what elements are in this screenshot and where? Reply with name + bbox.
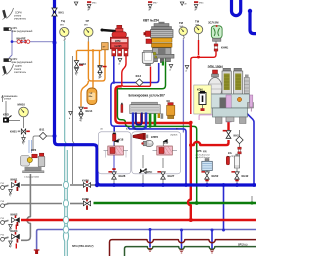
- svg-text:ЗСЛ-2М: ЗСЛ-2М: [208, 21, 219, 25]
- svg-text:(№367): (№367): [171, 133, 178, 136]
- svg-text:кран редукционный: кран редукционный: [12, 30, 34, 33]
- svg-text:стекло: стекло: [14, 69, 22, 71]
- svg-text:КПС: КПС: [147, 170, 153, 174]
- svg-text:А3: А3: [134, 127, 136, 130]
- svg-text:№395: №395: [114, 44, 122, 48]
- svg-text:PV3: PV3: [1, 218, 4, 220]
- svg-text:PV4: PV4: [1, 235, 4, 237]
- svg-text:КЭР1: КЭР1: [12, 28, 19, 30]
- svg-text:А2: А2: [126, 127, 128, 130]
- svg-text:стекол: стекол: [4, 99, 12, 101]
- svg-text:КН20: КН20: [82, 179, 89, 183]
- svg-text:КР3: КР3: [31, 148, 37, 152]
- svg-text:КН4ЛЕ: КН4ЛЕ: [17, 37, 26, 41]
- svg-text:КН2: КН2: [234, 134, 240, 138]
- svg-text:МН1: МН1: [180, 26, 184, 28]
- svg-text:КА: КА: [228, 151, 232, 155]
- svg-text:МН2: МН2: [84, 25, 88, 27]
- svg-text:PV5: PV5: [1, 183, 4, 185]
- svg-text:ТМ: ТМ: [195, 20, 200, 24]
- svg-text:PV8: PV8: [1, 201, 4, 203]
- svg-text:СОРН: СОРН: [15, 13, 22, 15]
- svg-text:КН14: КН14: [86, 109, 93, 113]
- svg-text:КПО: КПО: [3, 113, 10, 117]
- svg-text:У17: У17: [164, 141, 169, 145]
- svg-text:Блокировка усл.№367: Блокировка усл.№367: [129, 94, 166, 98]
- svg-text:SP11 (ПВ1-110/0,7): SP11 (ПВ1-110/0,7): [72, 245, 94, 248]
- svg-text:СОРН: СОРН: [15, 66, 22, 68]
- svg-text:КН42: КН42: [242, 174, 249, 178]
- svg-text:А1: А1: [101, 127, 103, 130]
- svg-text:У18: У18: [119, 138, 124, 142]
- svg-text:КН51: КН51: [10, 130, 17, 134]
- svg-text:ГМ: ГМ: [179, 21, 184, 25]
- svg-text:КН28: КН28: [119, 174, 126, 178]
- svg-text:К смазыванию: К смазыванию: [2, 96, 18, 98]
- svg-text:КН17: КН17: [153, 3, 157, 5]
- svg-text:А6: А6: [176, 127, 178, 130]
- svg-text:МН10: МН10: [18, 103, 26, 107]
- svg-text:очиститель: очиститель: [14, 19, 27, 21]
- svg-text:SP12 (с): SP12 (с): [238, 244, 248, 247]
- svg-text:кран редукционный: кран редукционный: [12, 61, 34, 64]
- svg-text:КЛР2: КЛР2: [151, 135, 159, 139]
- svg-text:КНК2: КНК2: [11, 213, 18, 217]
- svg-text:КН55: КН55: [82, 197, 89, 201]
- svg-text:КН16: КН16: [199, 3, 203, 5]
- svg-text:исп.7,5-8,5кгс/см²: исп.7,5-8,5кгс/см²: [196, 153, 211, 156]
- svg-text:(РД): (РД): [203, 151, 207, 153]
- svg-text:Ф11: Ф11: [39, 128, 45, 132]
- svg-text:КН4Б: КН4Б: [221, 46, 228, 50]
- svg-text:упр.5,0-5,2кгс/см²: упр.5,0-5,2кгс/см²: [196, 156, 211, 159]
- svg-text:КНК1: КНК1: [11, 178, 18, 182]
- svg-text:20л: 20л: [89, 96, 93, 98]
- svg-text:очиститель: очиститель: [14, 72, 27, 74]
- svg-text:УР: УР: [86, 19, 90, 23]
- svg-text:КН27: КН27: [168, 174, 175, 178]
- svg-text:МН4: МН4: [60, 25, 64, 27]
- svg-text:КН13: КН13: [79, 62, 86, 66]
- svg-text:КН52: КН52: [212, 174, 219, 178]
- svg-text:КЭР2: КЭР2: [12, 59, 19, 61]
- svg-text:стекло: стекло: [14, 16, 22, 18]
- svg-text:(над.ПТ): (над.ПТ): [227, 156, 235, 158]
- svg-text:КВТ №254: КВТ №254: [143, 19, 159, 23]
- svg-text:КК: КК: [167, 99, 171, 103]
- svg-text:КН15: КН15: [92, 3, 96, 5]
- svg-text:КРМ: КРМ: [115, 39, 120, 43]
- svg-text:КНК3: КНК3: [11, 229, 18, 233]
- svg-text:ЭПК-150И: ЭПК-150И: [208, 65, 224, 69]
- svg-text:КН: КН: [98, 65, 102, 69]
- svg-text:Ф13: Ф13: [136, 74, 142, 78]
- svg-text:КОН: КОН: [197, 88, 203, 92]
- svg-text:МН1: МН1: [196, 25, 200, 27]
- svg-text:1.Запасной №345: 1.Запасной №345: [24, 176, 39, 179]
- svg-text:SP6: SP6: [197, 149, 202, 153]
- svg-text:КН1: КН1: [59, 11, 65, 15]
